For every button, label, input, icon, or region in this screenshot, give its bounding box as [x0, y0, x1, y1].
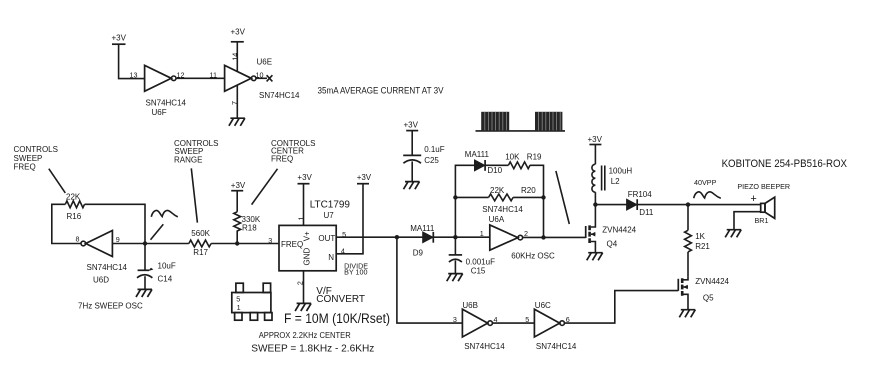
- svg-text:U6E: U6E: [257, 58, 273, 67]
- svg-text:OUT: OUT: [318, 234, 335, 243]
- resistor R19 10K: [505, 153, 542, 169]
- wire U7 DIV pin 4 to +3V: [336, 184, 363, 254]
- svg-text:SN74HC14: SN74HC14: [536, 342, 577, 351]
- wire U6D output to R16 (feedback left side): [52, 204, 81, 243]
- svg-text:14: 14: [230, 53, 239, 61]
- power +3V (U7 DIV): [357, 173, 372, 184]
- diode D11 FR104: [627, 190, 654, 217]
- svg-text:R20: R20: [521, 186, 536, 195]
- svg-text:+3V: +3V: [297, 173, 312, 182]
- inverter U6A: [482, 205, 523, 250]
- transistor Q4 ZVN4424: [586, 205, 637, 253]
- capacitor C14 10uF: [137, 244, 176, 290]
- svg-text:GND: GND: [303, 248, 312, 266]
- wire R17 to U7 FREQ pin 3: [211, 243, 279, 245]
- svg-text:U6F: U6F: [152, 108, 167, 117]
- svg-text:7Hz SWEEP OSC: 7Hz SWEEP OSC: [78, 302, 143, 311]
- svg-text:3: 3: [268, 236, 272, 245]
- svg-text:D11: D11: [639, 208, 654, 217]
- piezo beeper BR1: [737, 182, 790, 225]
- svg-text:SN74HC14: SN74HC14: [464, 342, 505, 351]
- ground (Q5 source): [679, 310, 695, 318]
- svg-text:R21: R21: [695, 242, 710, 251]
- svg-text:6: 6: [566, 315, 570, 324]
- svg-text:F = 10M (10K/Rset): F = 10M (10K/Rset): [284, 311, 390, 326]
- svg-text:35mA AVERAGE CURRENT AT 3V: 35mA AVERAGE CURRENT AT 3V: [318, 86, 444, 97]
- svg-text:+3V: +3V: [231, 181, 246, 190]
- svg-text:1: 1: [480, 229, 484, 238]
- wire output node to beeper: [688, 204, 761, 206]
- wire U6F output to U6E input pin 11: [176, 77, 225, 79]
- svg-text:+: +: [750, 193, 756, 205]
- node junction feedback tap: [453, 195, 457, 199]
- resistor R21 1K: [685, 230, 711, 252]
- svg-text:D9: D9: [413, 248, 424, 257]
- svg-text:APPROX 2.2KHz CENTER: APPROX 2.2KHz CENTER: [259, 330, 351, 340]
- svg-text:PIEZO BEEPER: PIEZO BEEPER: [737, 182, 790, 191]
- svg-text:MA111: MA111: [465, 150, 490, 159]
- svg-text:U6A: U6A: [489, 215, 505, 224]
- inverter U6D: [81, 231, 128, 285]
- svg-text:SN74HC14: SN74HC14: [259, 91, 300, 100]
- svg-text:FREQ: FREQ: [14, 163, 36, 172]
- wire drain node to D11: [595, 204, 626, 206]
- svg-text:1: 1: [237, 303, 241, 312]
- resistor R20 22K: [489, 186, 537, 201]
- svg-text:2: 2: [296, 281, 305, 285]
- wire D11 to output node: [637, 204, 688, 206]
- wire feedback left vertical: [455, 165, 474, 237]
- svg-text:10uF: 10uF: [158, 261, 176, 270]
- wire R16 to sweep node (feedback right side): [85, 204, 146, 243]
- ground (C14): [136, 289, 152, 297]
- wire +3V to L2: [594, 145, 596, 165]
- inverter U6B: [462, 301, 505, 351]
- wire +3V to U7 V+ pin 1: [303, 184, 305, 226]
- svg-text:U6C: U6C: [535, 301, 551, 310]
- svg-text:1K: 1K: [695, 232, 705, 241]
- wire R20 to output vertical: [513, 196, 543, 198]
- svg-text:+3V: +3V: [231, 28, 246, 37]
- svg-text:CONVERT: CONVERT: [316, 294, 365, 305]
- svg-text:FREQ: FREQ: [281, 240, 303, 249]
- diode D10 MA111: [465, 150, 503, 175]
- svg-text:Q4: Q4: [607, 240, 618, 249]
- pointer line from burst waveform: [556, 171, 569, 224]
- svg-text:100uH: 100uH: [609, 167, 633, 176]
- annotation CONTROLS CENTER FREQ: [271, 139, 315, 163]
- svg-text:BR1: BR1: [755, 216, 769, 225]
- wire U6B output to U6C input: [493, 322, 535, 324]
- wire sweep node to R17: [145, 243, 189, 245]
- svg-text:KOBITONE 254-PB516-ROX: KOBITONE 254-PB516-ROX: [722, 158, 847, 170]
- pointer line from sweep symbol to node: [151, 224, 164, 239]
- node junction Q4 drain / L2 / D11: [593, 202, 597, 206]
- wire R19 to output vertical: [530, 165, 544, 237]
- ground (C15): [447, 274, 463, 282]
- node junction 60KHz input node: [453, 235, 457, 239]
- capacitor C25 0.1uF: [403, 131, 445, 182]
- svg-text:RANGE: RANGE: [174, 155, 202, 164]
- pointer line to R18: [252, 169, 278, 205]
- svg-text:R18: R18: [242, 223, 257, 232]
- power +3V (R18): [231, 181, 246, 191]
- wire +3V to U6F input pin 13: [119, 44, 145, 78]
- svg-text:R16: R16: [67, 212, 82, 221]
- wire U6C output to Q5 gate: [564, 291, 678, 324]
- svg-text:5: 5: [525, 315, 529, 324]
- svg-text:1: 1: [296, 217, 305, 221]
- svg-text:SN74HC14: SN74HC14: [482, 205, 523, 214]
- resistor R17 560K: [189, 229, 211, 257]
- ground (U6E pin 7): [229, 118, 245, 126]
- diode D9 MA111: [410, 224, 435, 257]
- annotation CONTROLS SWEEP FREQ: [14, 145, 58, 171]
- node junction R20 output: [541, 195, 545, 199]
- sweep waveform symbol: [151, 210, 178, 216]
- svg-text:3: 3: [453, 315, 457, 324]
- svg-text:7: 7: [230, 101, 239, 105]
- svg-text:ZVN4424: ZVN4424: [695, 277, 729, 286]
- power +3V (C25): [404, 121, 419, 131]
- wire OUT branch down to U6B input: [397, 237, 463, 323]
- svg-text:SWEEP = 1.8KHz - 2.6KHz: SWEEP = 1.8KHz - 2.6KHz: [251, 343, 374, 355]
- svg-text:0.001uF: 0.001uF: [466, 257, 495, 266]
- svg-text:+3V: +3V: [357, 173, 372, 182]
- svg-text:U6B: U6B: [462, 301, 478, 310]
- svg-text:C14: C14: [158, 275, 173, 284]
- inductor L2 100uH: [592, 164, 632, 192]
- svg-text:10K: 10K: [505, 153, 520, 162]
- svg-text:+3V: +3V: [112, 34, 127, 43]
- svg-text:Q5: Q5: [703, 293, 714, 302]
- inverter U6C: [534, 301, 577, 351]
- svg-text:C15: C15: [471, 267, 486, 276]
- power +3V (L2): [588, 135, 603, 144]
- ground (Q4 source): [587, 253, 603, 261]
- svg-text:D10: D10: [487, 166, 502, 175]
- power +3V (into U6F): [112, 34, 127, 45]
- svg-text:22K: 22K: [490, 186, 505, 195]
- wire U6A output to Q4 gate: [523, 236, 586, 238]
- svg-text:LTC1799: LTC1799: [310, 200, 351, 211]
- node junction output node: [686, 202, 690, 206]
- wire D10 to R19: [485, 164, 508, 166]
- svg-text:R19: R19: [527, 153, 542, 162]
- wire +3V to U6E pin 14: [236, 42, 238, 71]
- power +3V (U7 V+): [297, 173, 312, 184]
- svg-text:+3V: +3V: [404, 121, 419, 130]
- power +3V (U6E pin 14): [231, 28, 246, 42]
- waveform symbol 40VPP: [694, 192, 721, 198]
- resistor R16 22K: [65, 192, 84, 221]
- svg-text:FR104: FR104: [628, 190, 653, 199]
- label V/F CONVERT: [316, 286, 365, 305]
- IC U7 LTC1799: [279, 200, 350, 271]
- wire U7 GND pin 2 to ground: [303, 271, 305, 303]
- svg-text:SN74HC14: SN74HC14: [146, 99, 187, 108]
- svg-text:5: 5: [236, 294, 240, 303]
- svg-text:11: 11: [210, 71, 217, 80]
- svg-text:60KHz OSC: 60KHz OSC: [511, 252, 555, 261]
- svg-text:R17: R17: [193, 248, 208, 257]
- wire U6D input to sweep node: [112, 243, 145, 245]
- node junction R18 to rail: [235, 241, 239, 245]
- node junction sweep node: [143, 241, 147, 245]
- capacitor C15 0.001uF: [449, 237, 495, 276]
- svg-text:40VPP: 40VPP: [694, 178, 717, 187]
- no-connect X on U6E pin 10: [256, 75, 272, 81]
- ground (C25): [404, 182, 420, 190]
- pointer line to R16: [49, 169, 66, 193]
- svg-text:L2: L2: [611, 177, 620, 186]
- node junction U6A output: [541, 235, 545, 239]
- svg-text:FREQ: FREQ: [271, 155, 293, 164]
- wire U7 OUT to D9: [336, 236, 423, 238]
- transistor Q5 ZVN4424: [678, 277, 729, 309]
- svg-text:U6D: U6D: [93, 276, 109, 285]
- wire L2 to drain node: [594, 192, 596, 204]
- svg-text:BY 100: BY 100: [344, 268, 367, 277]
- node junction OUT branch: [395, 235, 399, 239]
- pointer line to R17: [191, 168, 197, 222]
- svg-text:U7: U7: [324, 211, 335, 220]
- svg-text:0.1uF: 0.1uF: [424, 145, 445, 154]
- wire U6E pin 7 to ground: [236, 85, 238, 118]
- svg-text:+3V: +3V: [588, 135, 603, 144]
- SOT-23 package footprint: [232, 283, 272, 320]
- resistor R18 330K: [234, 191, 261, 244]
- wire D9 to 60KHz node: [433, 236, 489, 238]
- wire output node to R21: [687, 205, 689, 231]
- wire beeper return to ground: [734, 212, 761, 230]
- annotation CONTROLS SWEEP RANGE: [174, 139, 218, 164]
- label DIVIDE BY 100: [344, 262, 368, 277]
- svg-text:SN74HC14: SN74HC14: [87, 263, 128, 272]
- svg-text:ZVN4424: ZVN4424: [602, 225, 636, 234]
- svg-text:CONTROLS: CONTROLS: [14, 145, 58, 154]
- wire R20 branch left: [455, 196, 488, 198]
- svg-text:8: 8: [76, 234, 80, 243]
- svg-text:V+: V+: [303, 231, 312, 241]
- ground (beeper): [725, 230, 741, 238]
- svg-text:560K: 560K: [191, 229, 210, 238]
- burst waveform symbol: [476, 112, 566, 131]
- ground (U7 GND): [295, 303, 311, 311]
- wire R21 to Q5 drain: [687, 252, 689, 277]
- svg-text:C25: C25: [424, 156, 439, 165]
- svg-text:N: N: [328, 253, 334, 262]
- inverter U6E: [225, 58, 300, 100]
- inverter U6F: [145, 65, 187, 117]
- svg-text:13: 13: [130, 71, 138, 80]
